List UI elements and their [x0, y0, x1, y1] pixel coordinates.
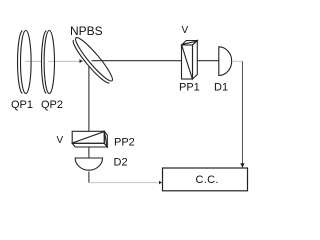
detector D1: [219, 47, 232, 76]
wire input beam segment 2: [48, 60, 83, 62]
svg-text:V: V: [182, 25, 189, 36]
svg-text:PP1: PP1: [179, 82, 200, 94]
wire corner down to C.C.: [242, 61, 244, 164]
svg-text:D1: D1: [214, 82, 228, 94]
wave plate QP1: [18, 31, 32, 94]
svg-text:V: V: [57, 135, 64, 146]
wire NPBS to PP1: [92, 60, 182, 62]
beam splitter NPBS: [72, 35, 116, 85]
wire D2 to C.C.: [89, 182, 159, 184]
wire NPBS down to PP2: [88, 66, 90, 131]
detector D2: [75, 158, 102, 170]
wire D2 down: [88, 172, 90, 183]
arrowhead into NPBS: [80, 59, 83, 63]
arrowhead into C.C. top: [240, 163, 244, 168]
polarizer prism PP2: [72, 131, 107, 147]
svg-text:PP2: PP2: [114, 137, 135, 149]
svg-text:QP1: QP1: [11, 99, 33, 111]
wire input beam segment 1: [25, 60, 41, 62]
box C.C.: [163, 168, 248, 191]
wire PP2 to D2: [88, 147, 90, 158]
wire PP1 to D1: [197, 60, 219, 62]
wave plate QP2: [42, 31, 55, 94]
svg-text:C.C.: C.C.: [196, 174, 219, 186]
polarizer prism PP1: [182, 41, 198, 80]
arrowhead into C.C. left: [159, 181, 162, 185]
wire D1 to corner: [233, 60, 242, 62]
svg-text:NPBS: NPBS: [70, 24, 103, 38]
svg-text:D2: D2: [114, 157, 128, 169]
svg-text:QP2: QP2: [41, 99, 63, 111]
